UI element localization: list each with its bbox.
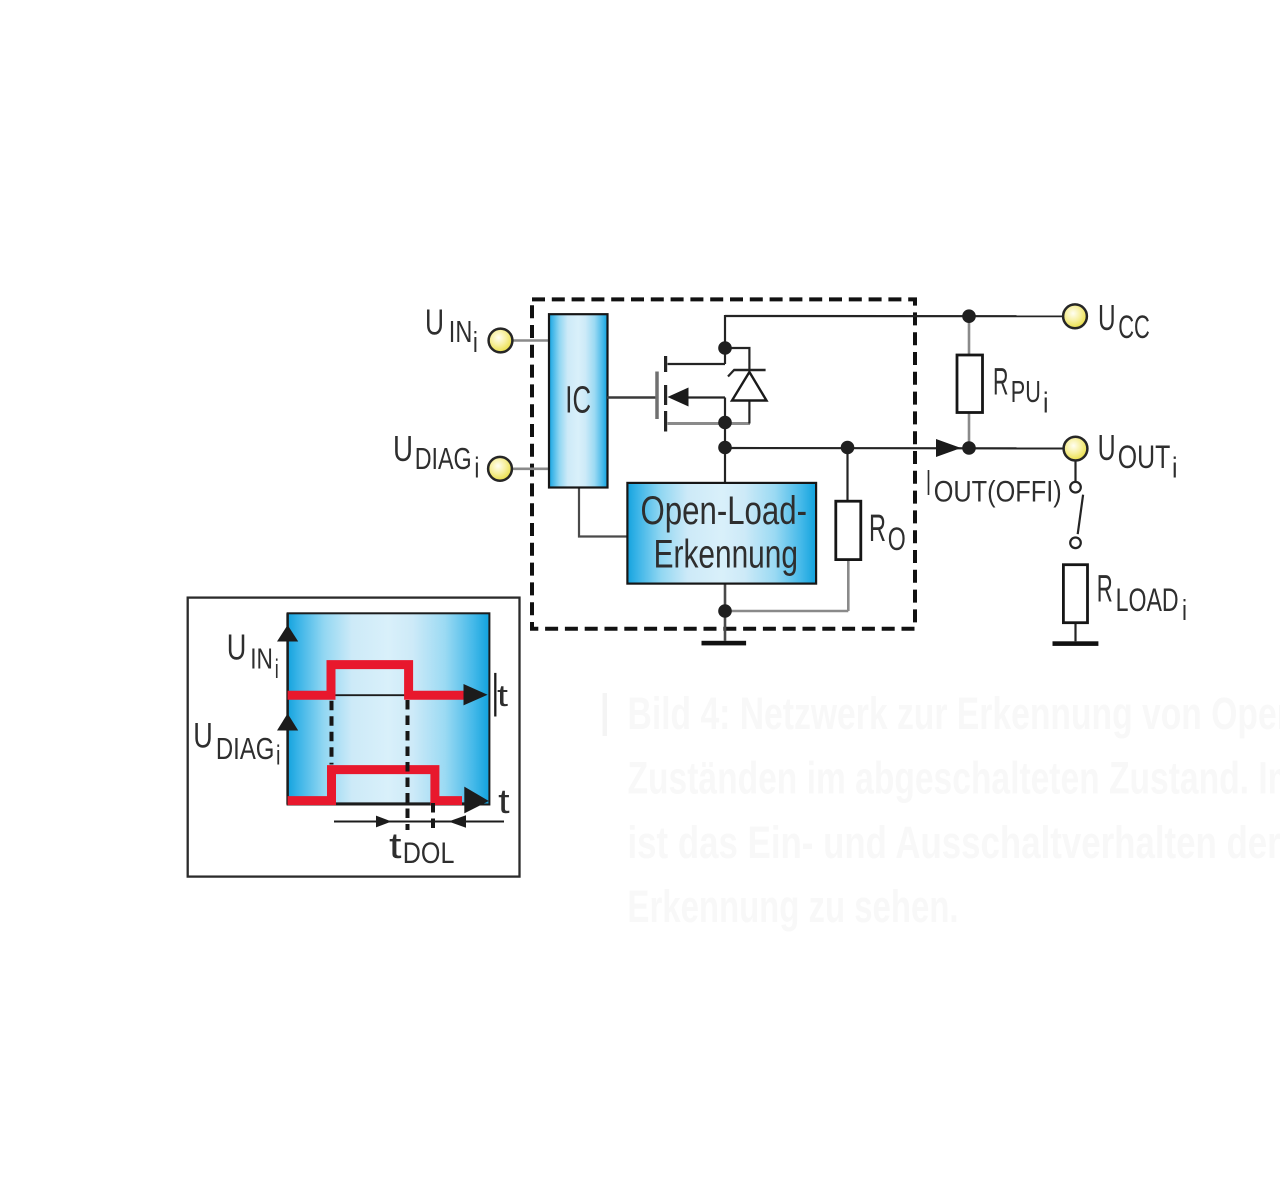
svg-text:U: U	[1098, 297, 1116, 338]
svg-text:DIAG: DIAG	[216, 731, 275, 766]
svg-text:CC: CC	[1118, 309, 1150, 345]
svg-text:i: i	[1172, 453, 1178, 485]
svg-text:U: U	[425, 302, 444, 343]
svg-text:i: i	[473, 327, 478, 359]
svg-text:i: i	[1043, 388, 1049, 420]
svg-text:DIAG: DIAG	[415, 441, 472, 476]
svg-text:PU: PU	[1011, 374, 1041, 409]
svg-text:I: I	[926, 462, 931, 503]
svg-text:i: i	[276, 740, 281, 771]
svg-text:U: U	[393, 428, 413, 469]
svg-text:Zuständen im abgeschalteten Zu: Zuständen im abgeschalteten Zustand. Im	[628, 753, 1280, 804]
svg-text:LOAD: LOAD	[1116, 582, 1179, 618]
svg-text:t: t	[497, 678, 508, 713]
svg-text:O: O	[888, 521, 906, 557]
svg-text:i: i	[1182, 595, 1187, 627]
svg-text:R: R	[993, 361, 1009, 403]
svg-text:ist das Ein- und Ausschaltverh: ist das Ein- und Ausschaltverhalten der …	[628, 817, 1280, 868]
svg-text:R: R	[869, 508, 886, 550]
svg-text:IN: IN	[250, 643, 273, 675]
svg-text:U: U	[1098, 427, 1116, 468]
svg-text:t: t	[498, 783, 510, 821]
svg-text:U: U	[227, 626, 247, 667]
svg-text:IC: IC	[565, 380, 591, 422]
svg-text:OUT(OFFI): OUT(OFFI)	[934, 476, 1062, 509]
svg-text:Open-Load-: Open-Load-	[641, 489, 808, 533]
svg-text:Erkennung: Erkennung	[654, 533, 798, 577]
svg-text:OUT: OUT	[1118, 439, 1171, 475]
svg-text:U: U	[193, 717, 213, 756]
svg-text:Erkennung zu sehen.: Erkennung zu sehen.	[628, 881, 959, 932]
svg-text:i: i	[474, 452, 479, 484]
svg-text:t: t	[389, 825, 402, 866]
svg-text:i: i	[275, 654, 279, 684]
svg-text:IN: IN	[449, 314, 473, 349]
svg-text:Bild 4: Netzwerk zur Erkennung: Bild 4: Netzwerk zur Erkennung von Open-	[628, 688, 1280, 739]
svg-text:DOL: DOL	[403, 837, 455, 870]
svg-text:R: R	[1097, 568, 1113, 610]
